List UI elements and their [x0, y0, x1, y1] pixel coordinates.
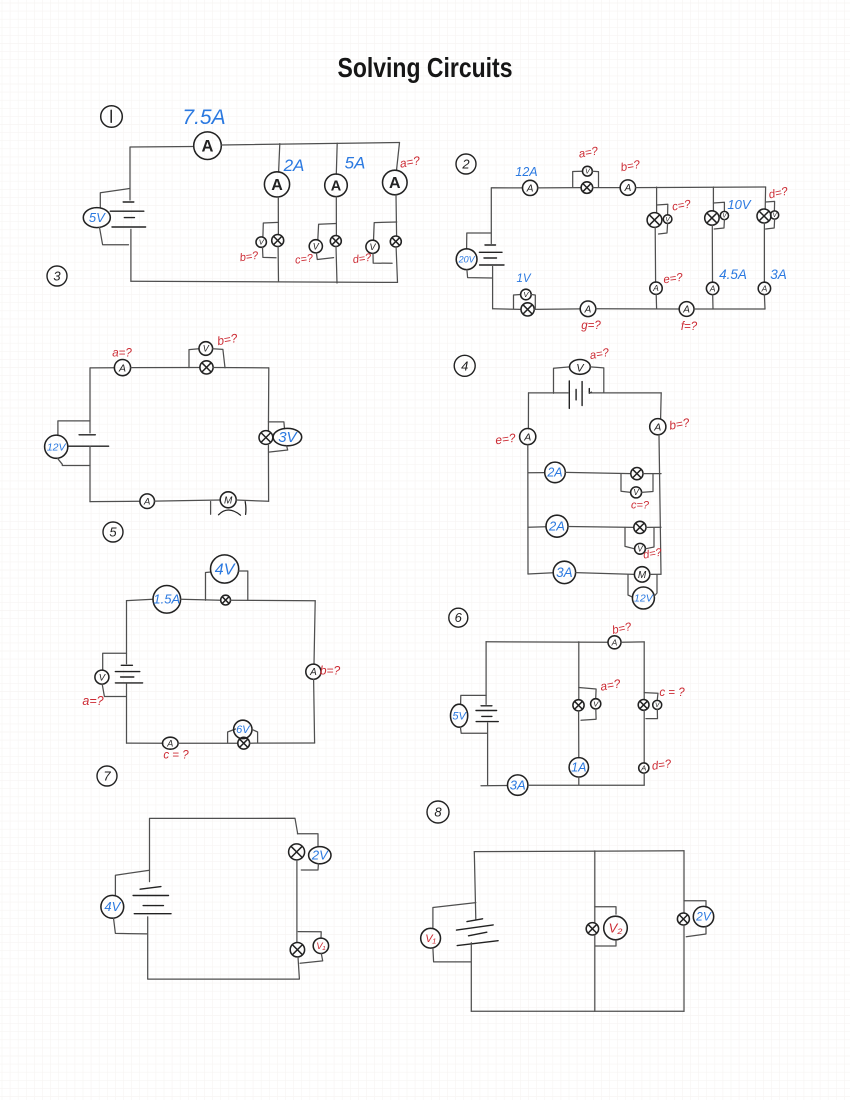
svg-text:3A: 3A [510, 778, 526, 793]
svg-text:Solving Circuits: Solving Circuits [338, 52, 513, 83]
svg-text:V₁: V₁ [425, 933, 436, 945]
svg-text:12V: 12V [47, 441, 67, 453]
svg-text:A: A [389, 175, 401, 192]
svg-text:A: A [709, 283, 716, 293]
svg-text:8: 8 [434, 805, 442, 820]
svg-text:V₂: V₂ [609, 921, 623, 936]
svg-text:7: 7 [103, 769, 111, 784]
svg-text:2V: 2V [311, 848, 329, 863]
svg-text:2A: 2A [283, 156, 305, 175]
svg-text:A: A [271, 177, 283, 194]
svg-text:2V: 2V [695, 910, 712, 924]
svg-text:6V: 6V [236, 724, 251, 736]
svg-text:g=?: g=? [581, 320, 601, 332]
svg-text:A: A [652, 283, 659, 293]
svg-text:c = ?: c = ? [163, 750, 189, 762]
svg-text:V: V [633, 488, 639, 497]
svg-text:10V: 10V [727, 197, 751, 212]
svg-text:1A: 1A [571, 761, 586, 775]
svg-text:5V: 5V [452, 711, 467, 723]
svg-text:a=?: a=? [82, 694, 103, 708]
svg-text:V: V [665, 216, 670, 223]
svg-text:7.5A: 7.5A [182, 106, 225, 129]
svg-text:A: A [523, 431, 531, 443]
svg-text:A: A [653, 421, 661, 433]
svg-text:3A: 3A [556, 565, 573, 580]
svg-text:A: A [761, 283, 768, 293]
svg-text:1V: 1V [516, 273, 531, 285]
svg-text:1.5A: 1.5A [153, 592, 180, 607]
svg-text:3: 3 [53, 269, 61, 284]
svg-text:5A: 5A [345, 154, 366, 173]
svg-text:M: M [224, 495, 233, 506]
svg-text:c=?: c=? [631, 500, 650, 512]
svg-text:V₁: V₁ [316, 941, 325, 952]
svg-text:A: A [331, 178, 342, 194]
svg-text:A: A [526, 183, 534, 194]
svg-text:12A: 12A [515, 165, 537, 179]
svg-text:e=?: e=? [494, 431, 516, 448]
svg-text:20V: 20V [458, 254, 476, 264]
svg-text:4: 4 [461, 358, 468, 373]
svg-text:b=?: b=? [320, 664, 341, 678]
svg-text:V: V [203, 344, 210, 354]
svg-text:3A: 3A [770, 267, 787, 282]
svg-text:A: A [202, 137, 214, 155]
svg-text:A: A [584, 304, 592, 315]
svg-text:2A: 2A [548, 519, 565, 534]
svg-text:A: A [624, 183, 632, 194]
svg-text:3V: 3V [278, 429, 298, 446]
svg-text:a=?: a=? [112, 348, 132, 360]
svg-text:A: A [143, 497, 150, 508]
svg-text:M: M [638, 570, 647, 581]
svg-text:A: A [682, 305, 690, 316]
svg-text:4V: 4V [104, 899, 121, 914]
svg-text:4V: 4V [215, 561, 236, 578]
svg-text:V: V [313, 241, 320, 251]
svg-text:A: A [309, 667, 317, 678]
svg-text:4.5A: 4.5A [719, 267, 747, 282]
svg-text:V: V [655, 702, 660, 709]
svg-text:V: V [369, 242, 376, 252]
svg-text:2: 2 [461, 157, 470, 172]
svg-text:12V: 12V [634, 593, 654, 605]
svg-text:A: A [640, 764, 646, 773]
svg-text:f=?: f=? [681, 321, 698, 333]
svg-text:A: A [166, 739, 173, 749]
svg-text:A: A [118, 362, 126, 374]
svg-text:2A: 2A [546, 466, 562, 480]
svg-text:5V: 5V [89, 210, 106, 225]
svg-text:A: A [611, 637, 618, 647]
svg-text:c = ?: c = ? [659, 687, 685, 699]
svg-text:6: 6 [455, 610, 463, 625]
svg-text:5: 5 [109, 525, 117, 540]
